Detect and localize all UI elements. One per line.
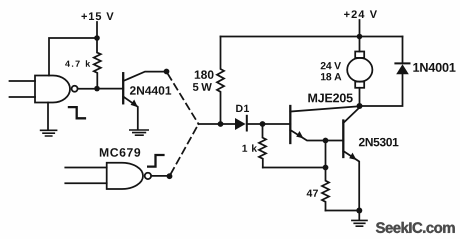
wire: U2 input A	[65, 167, 106, 169]
wire: node to Q1 base	[97, 88, 123, 90]
power label +24 V	[344, 10, 377, 18]
wire: diode top to rail	[402, 37, 404, 64]
node: Q1 collector end	[164, 69, 170, 75]
transistor Q3 collector	[343, 108, 359, 124]
wire: base node down to bottom node	[325, 141, 327, 168]
transistor Q3 2N5301 base bar	[342, 121, 344, 158]
transistor Q1 collector	[123, 72, 164, 81]
wire: U1 input B	[10, 96, 36, 98]
node: 180-ohm junction	[218, 121, 224, 127]
waveform: rising step	[147, 155, 165, 167]
value label 18 A	[321, 73, 341, 80]
resistor R4 47	[322, 168, 329, 211]
node: +15V junction	[94, 35, 100, 41]
wire (dashed) from U2 output to vertex	[171, 124, 199, 174]
transistor Q3 emitter	[343, 151, 359, 211]
wire: +15V rail left and down to gate top	[49, 38, 97, 76]
ground (main)	[352, 220, 367, 226]
diode D2 1N4001 triangle	[396, 64, 409, 74]
wire (dashed) from Q1 collector to vertex	[168, 74, 199, 124]
motor M1 top terminal	[355, 52, 364, 58]
wire: 1k bottom to 47 junction	[263, 167, 323, 169]
wire: base node to Q3	[326, 140, 344, 142]
node: U1 output / R1 bottom	[94, 86, 100, 92]
label 2N5301	[359, 138, 399, 147]
value label 5 W	[193, 83, 212, 91]
ground (U1)	[41, 130, 57, 136]
power label +15 V	[81, 12, 113, 20]
value label 4.7 k	[65, 60, 90, 67]
label 1N4001	[413, 63, 455, 72]
waveform: falling step	[68, 107, 86, 118]
arrow: Q1 emitter	[131, 100, 138, 108]
node: U2 output	[167, 173, 173, 179]
node: +24V junction	[357, 34, 363, 40]
wire: U2 input B	[65, 182, 106, 184]
output bubble U1	[72, 86, 78, 92]
transistor Q2 MJE205 base bar	[289, 106, 291, 143]
wire: gate bottom to ground	[47, 103, 49, 130]
wire: U1 output to node	[78, 88, 94, 90]
diode D2 cathode bar	[395, 62, 409, 64]
motor M1 body	[347, 58, 372, 82]
diode D1 cathode bar	[246, 116, 248, 131]
value label 180	[195, 70, 214, 79]
wire: ground stub	[358, 211, 360, 220]
wire: U2 output to node	[151, 175, 166, 177]
node: Q3 base junction	[323, 138, 329, 144]
output bubble U2	[145, 173, 151, 179]
resistor R2 180 5W	[217, 37, 224, 122]
watermark SeekIC.com	[376, 222, 455, 233]
transistor Q2 emitter	[290, 130, 322, 141]
value label 1 k	[242, 144, 257, 151]
wire: U1 input A	[10, 80, 36, 82]
resistor R1 4.7 k	[94, 38, 101, 86]
node: 1k junction	[260, 121, 266, 127]
NAND gate U1	[35, 76, 70, 103]
label D1	[236, 105, 249, 112]
wire: +15V stub down	[96, 22, 98, 38]
diode D1 triangle	[235, 118, 246, 130]
label 2N4401	[130, 86, 171, 95]
NAND gate U2 MC679	[107, 163, 143, 189]
arrow: Q2 emitter	[296, 131, 303, 138]
wire: collector node right to diode branch	[360, 75, 403, 107]
wire: vertex to D1 anode	[199, 123, 236, 125]
wire: top rail +24V	[221, 36, 403, 38]
node: 47 junction	[323, 165, 329, 171]
wire: D1 to Q2 base	[247, 123, 290, 125]
motor M1 bottom terminal	[355, 82, 364, 88]
transistor Q1 emitter	[123, 97, 138, 130]
resistor R3 1 k	[259, 124, 266, 168]
wire: motor bottom to collector node	[359, 88, 361, 106]
wire: +24V stub	[359, 20, 361, 37]
node: ground junction	[356, 208, 362, 214]
value label 47	[307, 190, 318, 197]
value label 24 V	[321, 62, 341, 69]
label MJE205	[308, 93, 352, 102]
ground (Q1 emitter)	[130, 130, 148, 135]
label MC679	[100, 148, 140, 157]
wire: 47 bottom to ground node	[326, 210, 360, 212]
node: collector junction	[357, 103, 363, 109]
arrow: Q3 emitter	[349, 153, 356, 160]
transistor Q1 2N4401 base bar	[122, 73, 124, 103]
transistor Q2 collector	[290, 107, 357, 112]
wire: rail to motor top	[359, 37, 361, 52]
